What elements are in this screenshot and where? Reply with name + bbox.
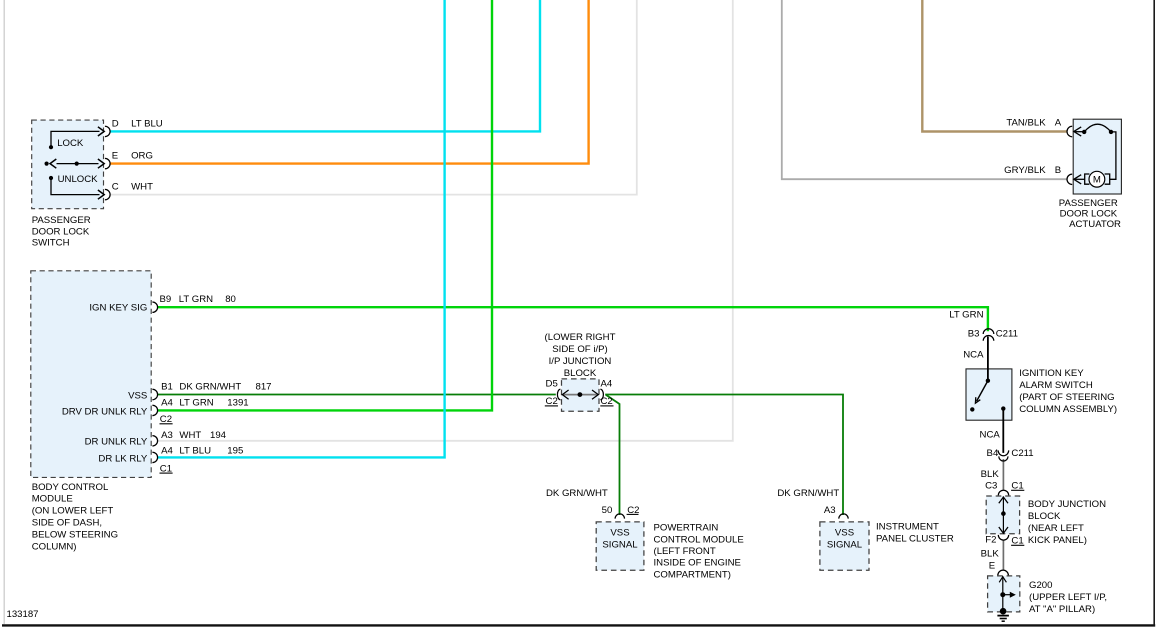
svg-text:SWITCH: SWITCH bbox=[32, 237, 70, 248]
svg-text:B: B bbox=[1055, 165, 1061, 176]
svg-text:A3: A3 bbox=[824, 505, 836, 516]
svg-text:A3: A3 bbox=[161, 430, 173, 441]
svg-text:(ON LOWER LEFT: (ON LOWER LEFT bbox=[32, 506, 114, 517]
svg-text:B9: B9 bbox=[160, 294, 172, 305]
svg-text:NCA: NCA bbox=[980, 429, 1001, 440]
svg-text:DOOR LOCK: DOOR LOCK bbox=[32, 226, 90, 237]
svg-text:(NEAR LEFT: (NEAR LEFT bbox=[1028, 523, 1084, 534]
svg-text:50: 50 bbox=[602, 505, 613, 516]
svg-text:PANEL CLUSTER: PANEL CLUSTER bbox=[876, 533, 954, 544]
svg-text:E: E bbox=[112, 151, 118, 162]
svg-text:LT GRN: LT GRN bbox=[179, 397, 213, 408]
svg-text:ACTUATOR: ACTUATOR bbox=[1069, 219, 1121, 230]
svg-text:195: 195 bbox=[227, 446, 243, 457]
svg-text:LT BLU: LT BLU bbox=[131, 118, 163, 129]
svg-text:D5: D5 bbox=[546, 379, 558, 390]
svg-text:LT BLU: LT BLU bbox=[179, 446, 211, 457]
svg-text:ALARM SWITCH: ALARM SWITCH bbox=[1019, 380, 1093, 391]
svg-text:BODY JUNCTION: BODY JUNCTION bbox=[1028, 499, 1106, 510]
svg-text:DK GRN/WHT: DK GRN/WHT bbox=[777, 488, 839, 499]
svg-text:E: E bbox=[989, 560, 995, 571]
svg-text:ORG: ORG bbox=[131, 151, 153, 162]
svg-text:BELOW STEERING: BELOW STEERING bbox=[32, 529, 118, 540]
svg-text:B1: B1 bbox=[161, 381, 173, 392]
svg-text:INSIDE OF ENGINE: INSIDE OF ENGINE bbox=[654, 558, 741, 569]
svg-text:COLUMN ASSEMBLY): COLUMN ASSEMBLY) bbox=[1019, 404, 1117, 415]
svg-text:B3: B3 bbox=[968, 328, 980, 339]
svg-text:DK GRN/WHT: DK GRN/WHT bbox=[179, 381, 241, 392]
svg-text:817: 817 bbox=[256, 381, 272, 392]
svg-text:194: 194 bbox=[210, 430, 227, 441]
svg-text:D: D bbox=[112, 118, 119, 129]
svg-text:VSS: VSS bbox=[835, 527, 854, 538]
svg-text:133187: 133187 bbox=[7, 609, 39, 620]
svg-text:C211: C211 bbox=[1011, 448, 1033, 459]
svg-text:COLUMN): COLUMN) bbox=[32, 541, 77, 552]
svg-text:LOCK: LOCK bbox=[57, 138, 84, 149]
svg-text:SIDE OF i/P): SIDE OF i/P) bbox=[552, 344, 607, 355]
svg-text:80: 80 bbox=[225, 294, 236, 305]
svg-text:UNLOCK: UNLOCK bbox=[58, 174, 99, 185]
svg-text:DK GRN/WHT: DK GRN/WHT bbox=[546, 488, 608, 499]
svg-text:SIDE OF DASH,: SIDE OF DASH, bbox=[32, 518, 102, 529]
svg-text:KICK PANEL): KICK PANEL) bbox=[1028, 535, 1087, 546]
svg-text:A: A bbox=[1055, 117, 1062, 128]
svg-text:PASSENGER: PASSENGER bbox=[32, 215, 91, 226]
svg-text:POWERTRAIN: POWERTRAIN bbox=[654, 523, 719, 534]
svg-text:WHT: WHT bbox=[179, 430, 201, 441]
svg-text:WHT: WHT bbox=[131, 182, 153, 193]
svg-text:DRV DR UNLK RLY: DRV DR UNLK RLY bbox=[62, 406, 148, 417]
svg-text:CONTROL MODULE: CONTROL MODULE bbox=[654, 534, 744, 545]
svg-text:C211: C211 bbox=[996, 328, 1018, 339]
svg-text:B4: B4 bbox=[987, 448, 999, 459]
svg-text:BLK: BLK bbox=[981, 469, 1000, 480]
svg-text:A4: A4 bbox=[161, 397, 173, 408]
svg-text:C3: C3 bbox=[985, 481, 997, 492]
svg-text:A4: A4 bbox=[601, 379, 613, 390]
svg-text:BLOCK: BLOCK bbox=[1028, 511, 1061, 522]
svg-text:BODY CONTROL: BODY CONTROL bbox=[32, 482, 109, 493]
svg-text:(LOWER RIGHT: (LOWER RIGHT bbox=[545, 332, 616, 343]
svg-text:VSS: VSS bbox=[610, 527, 629, 538]
svg-text:1391: 1391 bbox=[227, 397, 248, 408]
svg-text:F2: F2 bbox=[985, 535, 996, 546]
svg-text:(PART OF STEERING: (PART OF STEERING bbox=[1019, 392, 1114, 403]
svg-text:MODULE: MODULE bbox=[32, 494, 73, 505]
svg-text:BLK: BLK bbox=[981, 549, 1000, 560]
svg-text:G200: G200 bbox=[1029, 580, 1052, 591]
svg-text:NCA: NCA bbox=[963, 349, 984, 360]
svg-text:IGN KEY SIG: IGN KEY SIG bbox=[89, 303, 147, 314]
svg-text:GRY/BLK: GRY/BLK bbox=[1004, 165, 1046, 176]
svg-text:TAN/BLK: TAN/BLK bbox=[1006, 117, 1046, 128]
svg-text:LT GRN: LT GRN bbox=[179, 294, 213, 305]
svg-text:IGNITION KEY: IGNITION KEY bbox=[1019, 368, 1084, 379]
svg-text:DOOR LOCK: DOOR LOCK bbox=[1060, 209, 1118, 220]
svg-text:DR LK RLY: DR LK RLY bbox=[98, 453, 147, 464]
svg-text:DR UNLK RLY: DR UNLK RLY bbox=[85, 437, 148, 448]
svg-text:INSTRUMENT: INSTRUMENT bbox=[876, 522, 939, 533]
svg-text:SIGNAL: SIGNAL bbox=[602, 539, 638, 550]
svg-text:A4: A4 bbox=[161, 446, 173, 457]
svg-text:(UPPER LEFT I/P,: (UPPER LEFT I/P, bbox=[1029, 592, 1107, 603]
svg-text:LT GRN: LT GRN bbox=[949, 310, 983, 321]
svg-text:(LEFT FRONT: (LEFT FRONT bbox=[654, 546, 716, 557]
svg-text:BLOCK: BLOCK bbox=[564, 368, 597, 379]
svg-text:M: M bbox=[1093, 175, 1101, 186]
svg-text:PASSENGER: PASSENGER bbox=[1059, 198, 1118, 209]
svg-text:AT "A" PILLAR): AT "A" PILLAR) bbox=[1029, 604, 1095, 615]
svg-text:COMPARTMENT): COMPARTMENT) bbox=[654, 569, 731, 580]
svg-text:I/P JUNCTION: I/P JUNCTION bbox=[549, 356, 612, 367]
svg-text:SIGNAL: SIGNAL bbox=[827, 539, 863, 550]
svg-text:VSS: VSS bbox=[128, 390, 147, 401]
svg-text:C: C bbox=[112, 182, 119, 193]
